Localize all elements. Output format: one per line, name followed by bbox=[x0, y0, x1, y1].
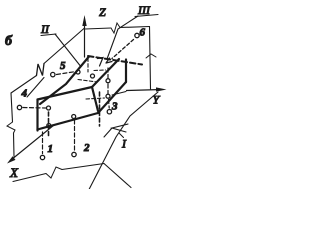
plane III right edge bbox=[150, 27, 151, 90]
dashed ray from 5 bbox=[57, 72, 75, 75]
break mark on plane III top edge bbox=[111, 23, 120, 33]
arrowhead of ray 6 bbox=[106, 58, 112, 63]
dashed ray from 3 to foot bbox=[108, 100, 111, 109]
plane I slanted boundary line bbox=[89, 92, 158, 190]
leader from II to plane II bbox=[55, 34, 80, 66]
small 7-like mark on top face bbox=[98, 58, 104, 67]
box thin parallel edge at left tip bbox=[27, 78, 44, 98]
svg-text:4: 4 bbox=[21, 88, 28, 100]
axis Y bbox=[127, 90, 163, 91]
point 2 bbox=[72, 152, 76, 156]
point 4 bbox=[17, 105, 21, 109]
point 3 bbox=[107, 110, 111, 114]
axis Z bbox=[84, 22, 86, 57]
dashed ray to point 2 bbox=[74, 120, 76, 151]
plane III top edge bbox=[85, 27, 150, 30]
break mark on plane II left edge bbox=[7, 122, 15, 133]
vertical dashed construction on top face bbox=[87, 58, 89, 72]
point 6 bbox=[135, 33, 139, 37]
box long bottom-right edge bbox=[98, 82, 126, 113]
svg-text:5: 5 bbox=[60, 60, 66, 72]
point 5 bbox=[51, 72, 55, 76]
plane I bottom edge bbox=[13, 164, 104, 182]
box right-end top edge bbox=[92, 59, 119, 87]
foot circles of point 3 bbox=[106, 94, 110, 98]
box left vertical edge bbox=[36, 100, 38, 131]
point 1 bbox=[40, 155, 44, 159]
plane II top edge (slopes down-left) bbox=[11, 28, 85, 93]
box right-end vertical edge bbox=[125, 60, 127, 83]
thin dashed horizontal bbox=[94, 69, 106, 72]
leader to I bbox=[119, 133, 124, 138]
hidden vertical edge dashes right bbox=[99, 92, 101, 126]
hidden vertical edge dashes left bbox=[48, 112, 50, 137]
svg-text:X: X bbox=[9, 165, 19, 180]
box near-end top edge bbox=[38, 87, 93, 100]
thin dashed line on top face bbox=[78, 80, 97, 83]
svg-text:б: б bbox=[5, 34, 13, 49]
box bottom edge bbox=[38, 113, 99, 130]
foot circle for point 2 bbox=[72, 115, 76, 119]
svg-text:1: 1 bbox=[48, 143, 54, 155]
second circle on top face bbox=[91, 74, 95, 78]
underline of III bbox=[135, 15, 158, 17]
leader from III to plane III bbox=[107, 16, 138, 59]
plane II left edge bbox=[11, 93, 14, 157]
plane I right edge going down bbox=[104, 164, 131, 188]
foot of 5 on top face bbox=[76, 70, 80, 74]
dashed ray to point 1 bbox=[42, 132, 44, 154]
dashes between feet bbox=[107, 84, 109, 94]
box long top-left edge bbox=[40, 57, 89, 105]
box front-right short edge bbox=[92, 87, 98, 111]
underline of II bbox=[41, 34, 56, 36]
dashed ray from 6 down-left bbox=[112, 40, 134, 59]
foot of 4 on front face bbox=[47, 106, 51, 110]
dashed ray from 4 bbox=[23, 107, 46, 110]
box hidden far top edge (thick dashed) bbox=[88, 56, 142, 65]
axis X bbox=[11, 125, 54, 160]
svg-text:3: 3 bbox=[111, 101, 118, 113]
svg-text:2: 2 bbox=[83, 142, 90, 154]
break mark on plane I bottom edge bbox=[46, 167, 62, 178]
svg-text:II: II bbox=[40, 22, 50, 36]
svg-text:6: 6 bbox=[140, 27, 146, 39]
break arrow near label I bbox=[112, 124, 128, 132]
foot circle above bottom edge (point 1 projection) bbox=[47, 124, 51, 128]
thin dashed horizontal lower bbox=[86, 98, 105, 99]
svg-text:Z: Z bbox=[99, 5, 106, 19]
break mark on plane II top edge bbox=[37, 64, 45, 76]
break tick on plane III right edge bbox=[146, 54, 156, 58]
